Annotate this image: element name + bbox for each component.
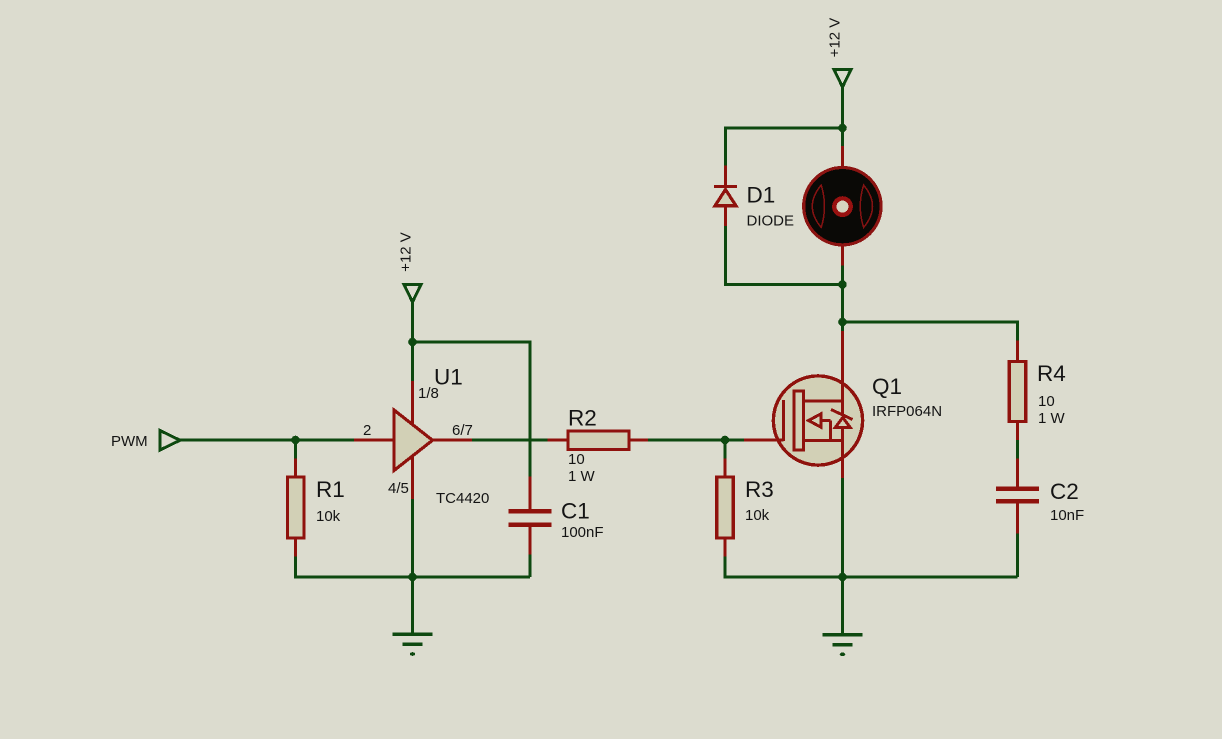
wire R1 bottom to rail (294, 557, 297, 578)
node junction ground stem right (838, 573, 847, 582)
svg-text:10: 10 (1038, 393, 1055, 410)
svg-text:10k: 10k (316, 508, 341, 525)
pin 6/7 output (red) (433, 439, 473, 442)
wire vdd rail to C1 (413, 342, 531, 477)
pin motor bottom (red) (841, 246, 844, 266)
svg-text:100nF: 100nF (561, 524, 604, 541)
node junction gate / R3 (721, 436, 730, 445)
svg-text:1 W: 1 W (568, 468, 596, 485)
svg-text:+12 V: +12 V (827, 18, 844, 58)
pin C2 top (red) (1016, 459, 1019, 487)
wire junction to R1 (294, 440, 297, 459)
ground (left) (393, 577, 433, 656)
pin C1 top (red) (529, 477, 532, 510)
svg-text:1 W: 1 W (1038, 410, 1066, 427)
pin 2 of U1 (red) (354, 439, 394, 442)
transistor Q1 (773, 376, 862, 465)
svg-text:R4: R4 (1037, 361, 1066, 386)
resistor R2 (568, 431, 629, 450)
terminal PWM input (160, 431, 180, 451)
svg-text:PWM: PWM (111, 433, 148, 450)
svg-text:DIODE: DIODE (747, 213, 795, 230)
resistor R4 (1009, 362, 1026, 422)
svg-text:Q1: Q1 (872, 374, 902, 399)
wire top junction to diode branch (726, 128, 843, 166)
svg-text:1/8: 1/8 (418, 385, 439, 402)
wire R3 bottom to rail (724, 557, 727, 578)
wire junction to R3 (724, 440, 727, 459)
wire C1 bottom to rail (529, 555, 532, 578)
wire R4 top (1016, 322, 1019, 341)
wire R4 to C2 (1016, 440, 1019, 459)
wire ground rail right (725, 576, 1018, 578)
svg-text:+12 V: +12 V (398, 232, 415, 272)
capacitor C1 (509, 509, 552, 527)
svg-text:2: 2 (363, 422, 371, 439)
wire vdd junction to pin 1/8 (411, 342, 414, 381)
resistor R3 (717, 477, 734, 538)
pin motor top (red) (841, 146, 844, 166)
node junction U1 vdd (408, 338, 417, 347)
svg-text:R3: R3 (745, 477, 774, 502)
wire R4 branch top (843, 322, 1018, 341)
diode D1 (714, 185, 737, 206)
op-amp buffer U1 (394, 410, 433, 471)
svg-text:10k: 10k (745, 507, 770, 524)
wire D1 anode to motor bottom (726, 226, 843, 285)
svg-text:C1: C1 (561, 499, 590, 524)
pin D1 anode (red) (724, 207, 727, 227)
motor (804, 168, 881, 245)
pin C1 bottom (red) (529, 527, 532, 555)
wire ground rail left (296, 576, 531, 578)
node junction motor/diode bottom (838, 280, 847, 289)
wire U1 output to R2 (472, 439, 548, 442)
pin R3 bottom (red) (724, 538, 727, 557)
wire pin 4/5 to rail (411, 499, 414, 577)
node junction drain / R4 branch (838, 318, 847, 327)
pin Q1 gate (red) (744, 439, 784, 442)
pin R4 top (red) (1016, 341, 1019, 362)
pin C2 bottom (red) (1016, 504, 1019, 534)
pin R3 top (red) (724, 459, 727, 478)
ground (right) (823, 577, 863, 656)
power +12V terminal (motor) (834, 70, 851, 147)
wire C2 bottom to rail (1016, 534, 1019, 578)
node junction at R1 top (291, 436, 300, 445)
pin R2 left (red) (548, 439, 569, 442)
wire motor bottom to drain (841, 266, 844, 332)
power +12V terminal (U1) (404, 285, 421, 343)
svg-text:6/7: 6/7 (452, 422, 473, 439)
pin R4 bottom (red) (1016, 422, 1019, 441)
svg-text:R2: R2 (568, 406, 597, 431)
wire source to rail (841, 478, 844, 577)
svg-text:IRFP064N: IRFP064N (872, 403, 942, 420)
svg-text:10nF: 10nF (1050, 507, 1084, 524)
pin 4/5 (red) (411, 456, 414, 499)
pin R1 top (red) (294, 459, 297, 478)
svg-text:10: 10 (568, 451, 585, 468)
node junction ground stem left (408, 573, 417, 582)
resistor R1 (288, 477, 305, 538)
pin 1/8 (red) (411, 381, 414, 425)
svg-text:TC4420: TC4420 (436, 490, 489, 507)
pin Q1 source (red) (841, 428, 844, 479)
pin D1 cathode (red) (724, 166, 727, 186)
pin R1 bottom (red) (294, 538, 297, 557)
svg-text:4/5: 4/5 (388, 480, 409, 497)
svg-text:D1: D1 (747, 183, 776, 208)
node junction top of motor branch (838, 124, 847, 133)
pin R2 right (red) (629, 439, 648, 442)
wire PWM to U1 input (180, 439, 354, 442)
capacitor C2 (996, 487, 1039, 504)
svg-text:R1: R1 (316, 477, 345, 502)
svg-text:C2: C2 (1050, 479, 1079, 504)
wire R2 to gate node (648, 439, 744, 442)
pin Q1 drain (red) (841, 331, 844, 415)
